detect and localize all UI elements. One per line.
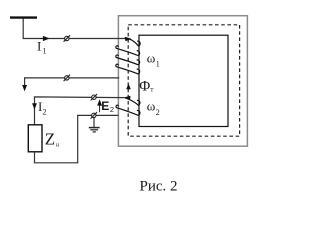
arrow I2 (down) <box>33 104 37 109</box>
svg-text:2: 2 <box>43 108 47 117</box>
svg-text:т: т <box>150 85 153 93</box>
wire (Z bottom to secondary return) <box>35 115 119 162</box>
flux arrow <box>126 84 131 90</box>
svg-text:н: н <box>56 143 60 149</box>
resistor Zn (load) <box>28 125 42 152</box>
svg-text:Φ: Φ <box>139 78 150 94</box>
svg-text:2: 2 <box>110 105 114 114</box>
wire (secondary top E2 wire, y=97) <box>35 97 125 125</box>
winding w2 (2 turns) <box>116 98 140 116</box>
svg-text:Z: Z <box>45 130 55 149</box>
terminal X3 <box>91 94 97 100</box>
flux path (dashed rectangle) <box>128 25 239 136</box>
winding w1 (4 turns) <box>116 39 140 74</box>
svg-text:Рис. 2: Рис. 2 <box>140 179 178 195</box>
svg-text:2: 2 <box>156 108 160 117</box>
terminal X1 <box>64 35 70 41</box>
arrow I1 <box>40 37 49 41</box>
transformer enclosure (outer gray rectangle) <box>118 16 247 147</box>
core window (inner solid rectangle) <box>139 35 228 126</box>
terminal X4 <box>91 112 97 118</box>
svg-text:E: E <box>101 99 109 113</box>
arrow (primary return, down) <box>23 85 27 90</box>
svg-text:1: 1 <box>156 60 160 69</box>
arrow E2 (up) <box>98 101 102 113</box>
wire (primary return, y=78) <box>25 78 120 89</box>
arrow (w2 exit) <box>124 96 130 100</box>
svg-text:1: 1 <box>43 47 47 56</box>
svg-text:ω: ω <box>147 99 156 114</box>
wire (busbar to primary top) <box>23 19 126 39</box>
svg-text:I: I <box>37 39 41 54</box>
svg-text:ω: ω <box>147 51 156 66</box>
busbar (source) <box>10 16 37 18</box>
terminal X2 <box>64 75 70 81</box>
arrow (w1 entry) <box>125 37 131 41</box>
ground <box>89 118 100 132</box>
